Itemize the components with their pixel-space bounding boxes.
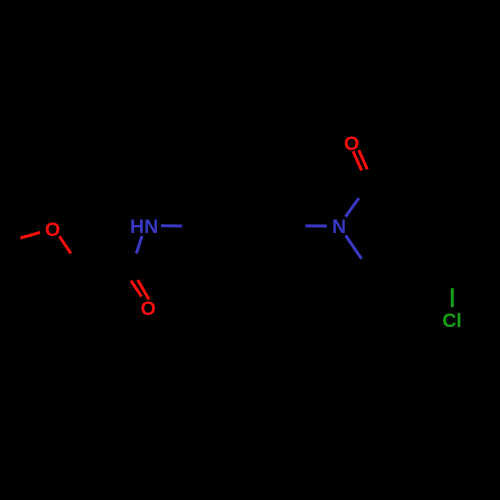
bond O1-C5 (red half, furan O to C5)	[21, 232, 41, 238]
wire benzo inner double C4i-C3a	[422, 249, 450, 265]
svg-text:l: l	[456, 310, 461, 332]
bond Cam=Oam double line 2 (amide C=O)	[138, 280, 149, 300]
bond N2-C1i (blue half, lactam N to carbonyl C)	[346, 198, 359, 217]
svg-text:O: O	[45, 219, 60, 241]
bond C4i-Cl (green half, aryl to Cl)	[451, 288, 454, 307]
wire benzo inner double C6i-C5i	[487, 211, 490, 243]
svg-text:C: C	[442, 310, 456, 332]
wire C1i-C7a (lactam to benzo)	[367, 186, 412, 203]
wire C5-C4 (THF ring edge)	[5, 242, 8, 290]
wire benzo C4i-C3a	[412, 251, 454, 275]
svg-text:N: N	[144, 216, 158, 238]
wire benzo C7a-C7	[412, 179, 454, 203]
svg-text:N: N	[332, 216, 346, 238]
wire benzo C6i-C5i	[494, 203, 497, 251]
bond C1i=Oi double line 1 (ketone C=O)	[353, 151, 362, 170]
svg-text:O: O	[344, 133, 359, 155]
wire benzene C4b-C5b	[268, 226, 292, 268]
wire C3i-C3a (lactam CH2 to benzo)	[366, 251, 412, 267]
wire benzo C3a-C7a (fused bond)	[411, 203, 414, 251]
bond O1-C2 (red half, furan O to C2)	[59, 236, 70, 253]
wire benzene inner double C2b-C3b	[228, 190, 260, 193]
wire benzene C1b-C2b	[196, 185, 220, 227]
bond C1i=Oi double line 2 (ketone C=O)	[359, 150, 368, 169]
wire benzene inner double C4b-C5b	[266, 230, 282, 258]
svg-text:H: H	[130, 216, 144, 238]
svg-text:O: O	[141, 298, 156, 320]
wire C2-Cam (link to amide carbon)	[80, 266, 129, 268]
wire benzo C7-C6i	[454, 179, 496, 203]
wire benzene C5b-C6b	[220, 266, 268, 269]
bond Cam=Oam double line 1 (amide C=O)	[131, 281, 142, 297]
bond N1-C1b (blue half, NH to benzene)	[161, 224, 182, 227]
wire benzo C5i-C4i	[454, 251, 496, 275]
bond C4b-N2 (blue half, benzene to lactam N)	[306, 224, 327, 227]
wire benzene C6b-C1b	[196, 226, 220, 268]
wire benzene C3b-C4b	[268, 185, 292, 227]
wire C3-C2 (THF ring edge)	[52, 266, 80, 305]
wire benzene C2b-C3b	[220, 183, 268, 186]
wire benzo inner double C7a-C7	[422, 188, 450, 204]
bond N1-Cam (blue half, NH to amide carbon)	[136, 236, 142, 254]
wire C4-C3 (THF ring edge)	[7, 290, 53, 305]
bond N2-C3i (blue half, lactam N to CH2)	[346, 235, 362, 258]
wire benzene inner double C6b-C1b	[205, 230, 221, 258]
